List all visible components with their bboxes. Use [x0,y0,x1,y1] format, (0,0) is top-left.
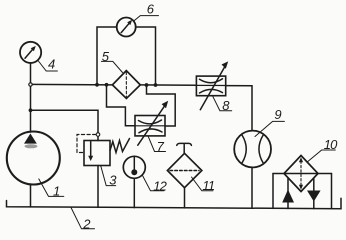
filter 10 diamond [284,156,318,192]
wire: breather 11 bottom to tank line [184,188,186,208]
leader line label 7 [148,136,166,152]
gauge 6 needle [121,22,130,33]
wire: throttle 8 outlet to circle 9 [226,86,252,131]
wire: filter 10 outlet branch with check arrow [313,178,315,209]
wire: left vertical from gauge 4 down to pump [30,63,32,132]
wire: breather 11 stub to atmosphere cap [183,144,185,153]
filter 10 inner up arrowhead [299,157,303,162]
wire: gauge 6 loop right leg [136,27,156,85]
gauge 4 needle [25,48,34,58]
thermometer 12 circle [123,156,145,178]
gauge 4 circle [20,42,41,63]
relief valve 3 inner flow arrow [90,142,92,159]
breather filter 11 diamond [167,153,201,187]
svg-text:4: 4 [48,56,55,71]
thermometer 12 bulb [131,169,137,175]
leader line label 4 [38,61,57,72]
filter 10 inner down arrowhead [299,185,303,190]
wire: filter 10 frame right vertical [331,174,333,209]
gauge 6 circle [117,18,136,37]
wire: main pressure line right of filter 5 [140,84,196,86]
wire: thermometer 12 to tank line [133,178,135,207]
wire: flow meter 9 down to tank line [251,167,253,208]
relief valve 3 pilot dashed line [77,135,96,153]
throttle 8 body [196,76,225,96]
junction dot main line / gauge 6 left leg [95,83,99,87]
leader line label 12 [143,176,165,191]
svg-text:1: 1 [53,184,60,199]
leader line label 5 [101,61,122,72]
pump P1 scan smudge [25,144,38,148]
svg-text:10: 10 [324,137,338,152]
relief valve 3 arrow head [88,156,93,161]
throttle 7 venturi arcs [139,120,163,133]
pump P1 direction triangle [24,134,37,144]
throttle 7 adjust arrow shaft [138,104,166,146]
junction dot main line / throttle 7 return [145,83,149,87]
leader line label 10 [308,150,336,162]
wire: throttle 7 outlet loop back to main line [147,85,176,126]
wire: branch to relief valve 3 [31,110,99,140]
wire: filter 10 frame left vertical [272,174,274,209]
flow meter 9 right seam arc [259,135,263,163]
wire: filter 10 manifold horizontal [273,173,332,175]
flow meter 9 left seam arc [242,135,246,163]
filter 10 dashed element [300,161,302,186]
check arrow up triangle [282,190,294,203]
leader line label 6 [134,16,158,21]
wire: main pressure line left segment [31,83,113,86]
wire: tank return line 2 [7,198,342,209]
thermometer 12 stem [133,157,135,172]
wire: valve 3 outlet to tank [97,166,99,208]
pump P1 circle [7,132,60,185]
svg-text:11: 11 [202,178,214,193]
relief valve 3 body [84,141,110,166]
throttle 7 arrow head [162,101,169,108]
wire: through line in throttle 7 [135,125,165,127]
filter 5 dashed element [125,72,127,97]
throttle 8 adjust arrow shaft [200,64,226,109]
leader line label 2 [71,208,95,229]
wire: branch down to throttle 7 inlet [107,85,136,126]
leader line label 3 [101,166,116,186]
svg-text:12: 12 [153,178,167,193]
wire: gauge 6 loop left leg [97,27,117,85]
junction dot main line / gauge 6 right leg [154,83,158,87]
breather 11 atmosphere cap [177,143,192,145]
check arrow down triangle [307,191,321,202]
wire: filter 10 inlet branch with check arrow [287,178,289,209]
throttle 7 body [135,116,165,136]
svg-text:9: 9 [274,107,281,122]
leader line label 9 [255,121,284,136]
relief valve 3 spring [110,139,130,153]
wire: main line through throttle 8 [196,84,225,86]
junction open circle at valve 3 pilot tap [96,133,100,137]
wire: pump outlet bottom to tank [30,184,32,207]
leader line label 11 [192,177,214,191]
gauge 6 needle arrowhead [127,20,132,25]
junction open circle at gauge 4 tap [29,83,32,86]
throttle 8 venturi arcs [200,79,223,93]
flow meter 9 circle [234,131,271,168]
leader line label 8 [213,96,232,111]
breather filter 11 dashed element [170,170,199,172]
junction dot valve 3 branch tap [29,108,33,112]
leader line label 1 [39,179,64,197]
throttle 8 arrow head [222,61,229,68]
filter 5 diamond [112,71,140,99]
gauge 4 needle arrowhead [31,46,36,51]
junction dot main line / throttle 7 branch [105,83,109,87]
